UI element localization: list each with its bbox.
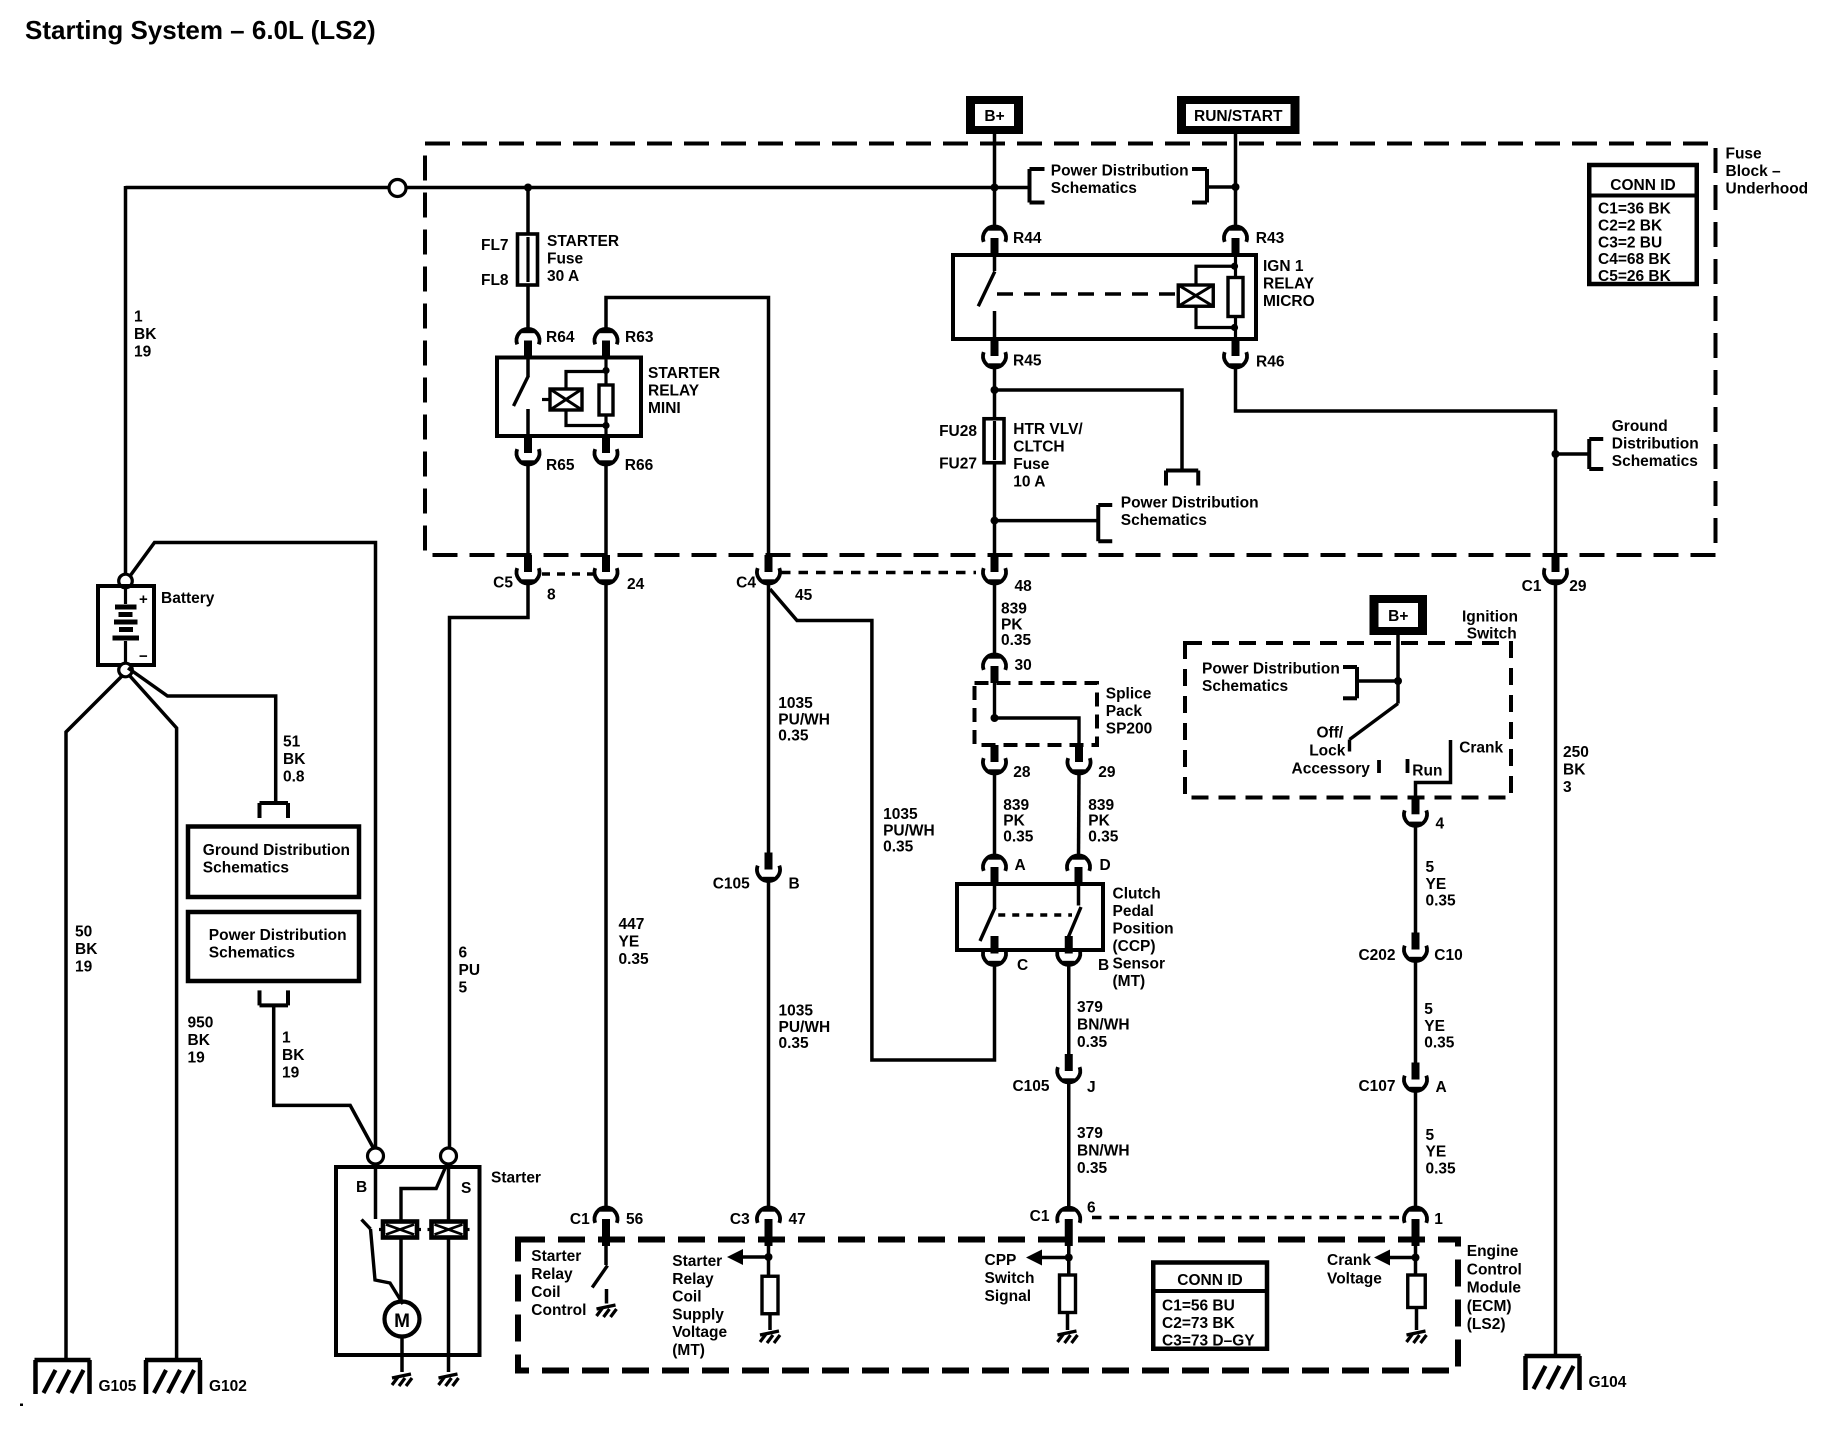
svg-text:30: 30 <box>1015 657 1032 674</box>
svg-text:−: − <box>139 648 148 665</box>
svg-text:(ECM): (ECM) <box>1467 1298 1512 1315</box>
svg-text:Power Distribution: Power Distribution <box>1051 163 1189 180</box>
svg-text:PK: PK <box>1003 813 1025 830</box>
svg-text:Lock: Lock <box>1309 743 1346 760</box>
svg-text:Starting System – 6.0L (LS2): Starting System – 6.0L (LS2) <box>25 15 376 45</box>
svg-text:Crank: Crank <box>1327 1252 1371 1269</box>
svg-text:0.35: 0.35 <box>1424 1035 1455 1052</box>
svg-text:C1: C1 <box>1030 1208 1050 1225</box>
svg-text:MICRO: MICRO <box>1263 293 1315 310</box>
svg-text:YE: YE <box>619 933 640 950</box>
svg-text:CPP: CPP <box>985 1252 1017 1269</box>
svg-text:G102: G102 <box>209 1378 247 1395</box>
svg-text:Ignition: Ignition <box>1462 609 1518 626</box>
svg-text:839: 839 <box>1003 797 1029 814</box>
svg-text:C107: C107 <box>1358 1078 1395 1095</box>
svg-text:Schematics: Schematics <box>1612 453 1698 470</box>
svg-text:R43: R43 <box>1256 230 1285 247</box>
svg-text:Engine: Engine <box>1467 1243 1519 1260</box>
svg-text:CONN ID: CONN ID <box>1610 177 1675 194</box>
svg-text:1: 1 <box>1434 1211 1443 1228</box>
svg-text:29: 29 <box>1098 764 1116 781</box>
svg-text:PU: PU <box>459 962 481 979</box>
svg-text:BK: BK <box>188 1032 211 1049</box>
svg-text:STARTER: STARTER <box>648 365 720 382</box>
svg-text:Schematics: Schematics <box>1202 678 1288 695</box>
svg-text:BK: BK <box>75 941 98 958</box>
svg-text:Underhood: Underhood <box>1726 181 1809 198</box>
svg-text:R45: R45 <box>1013 353 1042 370</box>
svg-text:Clutch: Clutch <box>1113 886 1161 903</box>
svg-text:B: B <box>1098 957 1109 974</box>
svg-text:B+: B+ <box>1388 608 1408 625</box>
svg-text:379: 379 <box>1077 1125 1103 1142</box>
svg-text:5: 5 <box>1426 859 1435 876</box>
svg-text:Block –: Block – <box>1726 163 1782 180</box>
svg-text:51: 51 <box>283 734 301 751</box>
svg-text:Fuse: Fuse <box>547 251 584 268</box>
svg-text:Position: Position <box>1113 921 1174 938</box>
svg-text:YE: YE <box>1424 1018 1445 1035</box>
svg-text:Schematics: Schematics <box>209 945 295 962</box>
svg-text:6: 6 <box>1087 1200 1096 1217</box>
svg-text:STARTER: STARTER <box>547 233 619 250</box>
svg-text:Fuse: Fuse <box>1013 456 1050 473</box>
svg-text:HTR VLV/: HTR VLV/ <box>1013 421 1083 438</box>
svg-text:Power Distribution: Power Distribution <box>1121 495 1259 512</box>
svg-text:Run: Run <box>1412 762 1442 779</box>
svg-text:BK: BK <box>134 326 157 343</box>
svg-text:Power Distribution: Power Distribution <box>1202 661 1340 678</box>
svg-text:0.8: 0.8 <box>283 769 305 786</box>
svg-text:CLTCH: CLTCH <box>1013 439 1064 456</box>
svg-text:1: 1 <box>282 1030 291 1047</box>
svg-text:Power Distribution: Power Distribution <box>209 927 347 944</box>
svg-text:RELAY: RELAY <box>1263 276 1315 293</box>
svg-text:J: J <box>1087 1079 1096 1096</box>
svg-text:Switch: Switch <box>1467 626 1517 643</box>
svg-text:IGN 1: IGN 1 <box>1263 258 1304 275</box>
svg-text:PK: PK <box>1088 813 1110 830</box>
svg-text:SP200: SP200 <box>1106 721 1153 738</box>
svg-text:FU28: FU28 <box>939 423 977 440</box>
svg-text:C10: C10 <box>1434 947 1462 964</box>
svg-text:Fuse: Fuse <box>1726 146 1763 163</box>
svg-text:Voltage: Voltage <box>672 1324 727 1341</box>
svg-text:C4: C4 <box>736 575 756 592</box>
svg-text:0.35: 0.35 <box>619 951 650 968</box>
svg-text:PU/WH: PU/WH <box>778 711 830 728</box>
svg-text:Pedal: Pedal <box>1113 903 1154 920</box>
svg-text:Schematics: Schematics <box>1121 512 1207 529</box>
svg-text:6: 6 <box>459 945 468 962</box>
svg-text:Sensor: Sensor <box>1113 956 1166 973</box>
svg-text:FU27: FU27 <box>939 456 977 473</box>
svg-text:45: 45 <box>795 587 813 604</box>
svg-text:C105: C105 <box>713 876 750 893</box>
svg-text:4: 4 <box>1436 816 1445 833</box>
svg-text:Pack: Pack <box>1106 703 1143 720</box>
svg-text:C: C <box>1017 957 1028 974</box>
svg-text:A: A <box>1436 1079 1447 1096</box>
svg-text:FL7: FL7 <box>481 237 509 254</box>
svg-text:1035: 1035 <box>778 695 813 712</box>
svg-text:0.35: 0.35 <box>778 728 809 745</box>
svg-text:C3=73 D–GY: C3=73 D–GY <box>1162 1333 1255 1350</box>
svg-text:PK: PK <box>1001 616 1023 633</box>
svg-text:C4=68 BK: C4=68 BK <box>1598 251 1672 268</box>
svg-text:(MT): (MT) <box>1113 973 1146 990</box>
svg-text:RELAY: RELAY <box>648 383 700 400</box>
svg-text:50: 50 <box>75 924 92 941</box>
svg-text:R66: R66 <box>625 457 654 474</box>
svg-text:Distribution: Distribution <box>1612 436 1699 453</box>
svg-text:0.35: 0.35 <box>1001 632 1032 649</box>
svg-text:Starter: Starter <box>531 1248 581 1265</box>
svg-text:30 A: 30 A <box>547 268 579 285</box>
svg-text:0.35: 0.35 <box>1077 1034 1108 1051</box>
svg-text:C5=26 BK: C5=26 BK <box>1598 268 1672 285</box>
svg-text:D: D <box>1100 857 1111 874</box>
svg-text:C5: C5 <box>493 575 513 592</box>
svg-text:(LS2): (LS2) <box>1467 1316 1506 1333</box>
svg-text:C1=56 BU: C1=56 BU <box>1162 1298 1235 1315</box>
svg-text:BK: BK <box>1563 761 1586 778</box>
svg-text:PU/WH: PU/WH <box>779 1019 831 1036</box>
svg-text:MINI: MINI <box>648 400 681 417</box>
svg-text:Relay: Relay <box>672 1271 714 1288</box>
svg-text:950: 950 <box>188 1015 214 1032</box>
svg-text:R46: R46 <box>1256 354 1285 371</box>
svg-text:M: M <box>394 1311 410 1332</box>
svg-text:R64: R64 <box>546 329 575 346</box>
svg-text:FL8: FL8 <box>481 272 509 289</box>
svg-text:19: 19 <box>134 344 152 361</box>
svg-text:C1: C1 <box>570 1211 590 1228</box>
svg-text:C3=2 BU: C3=2 BU <box>1598 234 1662 251</box>
svg-text:Off/: Off/ <box>1317 725 1344 742</box>
svg-text:1035: 1035 <box>779 1003 814 1020</box>
svg-text:PU/WH: PU/WH <box>883 822 935 839</box>
svg-text:0.35: 0.35 <box>1088 828 1119 845</box>
svg-text:56: 56 <box>626 1211 644 1228</box>
svg-text:B: B <box>789 876 800 893</box>
svg-text:0.35: 0.35 <box>1426 893 1457 910</box>
svg-text:YE: YE <box>1426 876 1447 893</box>
svg-text:28: 28 <box>1013 764 1031 781</box>
svg-text:Signal: Signal <box>985 1288 1032 1305</box>
svg-text:CONN ID: CONN ID <box>1177 1272 1242 1289</box>
svg-text:379: 379 <box>1077 999 1103 1016</box>
svg-text:G105: G105 <box>99 1378 137 1395</box>
svg-text:BK: BK <box>283 751 306 768</box>
svg-text:R65: R65 <box>546 457 575 474</box>
svg-text:Relay: Relay <box>531 1266 573 1283</box>
svg-text:Schematics: Schematics <box>203 860 289 877</box>
svg-text:Accessory: Accessory <box>1292 760 1371 777</box>
svg-text:+: + <box>139 591 148 608</box>
svg-text:(CCP): (CCP) <box>1113 938 1156 955</box>
svg-text:0.35: 0.35 <box>1426 1160 1457 1177</box>
svg-text:48: 48 <box>1015 578 1033 595</box>
svg-text:YE: YE <box>1426 1144 1447 1161</box>
svg-text:S: S <box>461 1180 471 1197</box>
svg-text:C1: C1 <box>1522 578 1542 595</box>
svg-text:19: 19 <box>188 1050 206 1067</box>
svg-text:C3: C3 <box>730 1211 750 1228</box>
svg-text:447: 447 <box>619 916 645 933</box>
svg-text:Module: Module <box>1467 1280 1522 1297</box>
svg-text:839: 839 <box>1001 601 1027 618</box>
svg-text:24: 24 <box>627 576 645 593</box>
svg-text:C2=2 BK: C2=2 BK <box>1598 217 1663 234</box>
svg-text:5: 5 <box>1424 1001 1433 1018</box>
svg-text:8: 8 <box>547 587 556 604</box>
svg-text:Coil: Coil <box>672 1289 701 1306</box>
svg-text:19: 19 <box>75 959 93 976</box>
svg-text:Starter: Starter <box>672 1253 722 1270</box>
svg-text:0.35: 0.35 <box>1003 828 1034 845</box>
svg-text:29: 29 <box>1569 578 1587 595</box>
svg-text:R44: R44 <box>1013 230 1042 247</box>
svg-text:Schematics: Schematics <box>1051 180 1137 197</box>
svg-text:0.35: 0.35 <box>883 839 914 856</box>
svg-text:Control: Control <box>1467 1261 1522 1278</box>
svg-text:1: 1 <box>134 309 143 326</box>
svg-text:10 A: 10 A <box>1013 474 1045 491</box>
svg-text:B+: B+ <box>984 108 1004 125</box>
svg-text:G104: G104 <box>1589 1374 1627 1391</box>
svg-text:Ground: Ground <box>1612 418 1668 435</box>
svg-text:5: 5 <box>459 979 468 996</box>
svg-text:47: 47 <box>789 1211 806 1228</box>
svg-text:Splice: Splice <box>1106 686 1152 703</box>
svg-text:Supply: Supply <box>672 1306 724 1323</box>
svg-text:BN/WH: BN/WH <box>1077 1016 1130 1033</box>
svg-text:5: 5 <box>1426 1127 1435 1144</box>
svg-text:Starter: Starter <box>491 1170 541 1187</box>
svg-text:BN/WH: BN/WH <box>1077 1142 1130 1159</box>
svg-text:Switch: Switch <box>985 1270 1035 1287</box>
svg-text:Crank: Crank <box>1459 740 1503 757</box>
svg-text:1035: 1035 <box>883 806 918 823</box>
svg-text:Coil: Coil <box>531 1284 560 1301</box>
svg-text:BK: BK <box>282 1047 305 1064</box>
svg-text:3: 3 <box>1563 779 1572 796</box>
svg-text:(MT): (MT) <box>672 1342 705 1359</box>
svg-text:Battery: Battery <box>161 590 215 607</box>
svg-text:C202: C202 <box>1358 947 1395 964</box>
svg-text:RUN/START: RUN/START <box>1194 108 1283 125</box>
svg-text:C2=73 BK: C2=73 BK <box>1162 1315 1236 1332</box>
svg-text:C105: C105 <box>1012 1078 1049 1095</box>
svg-text:0.35: 0.35 <box>779 1035 810 1052</box>
svg-text:Voltage: Voltage <box>1327 1271 1382 1288</box>
svg-text:839: 839 <box>1088 797 1114 814</box>
svg-text:19: 19 <box>282 1065 300 1082</box>
svg-text:250: 250 <box>1563 744 1589 761</box>
svg-text:Control: Control <box>531 1302 586 1319</box>
svg-text:B: B <box>356 1179 367 1196</box>
svg-text:0.35: 0.35 <box>1077 1160 1108 1177</box>
svg-text:A: A <box>1015 857 1026 874</box>
svg-text:R63: R63 <box>625 329 654 346</box>
svg-text:Ground Distribution: Ground Distribution <box>203 842 350 859</box>
svg-text:C1=36 BK: C1=36 BK <box>1598 201 1672 218</box>
